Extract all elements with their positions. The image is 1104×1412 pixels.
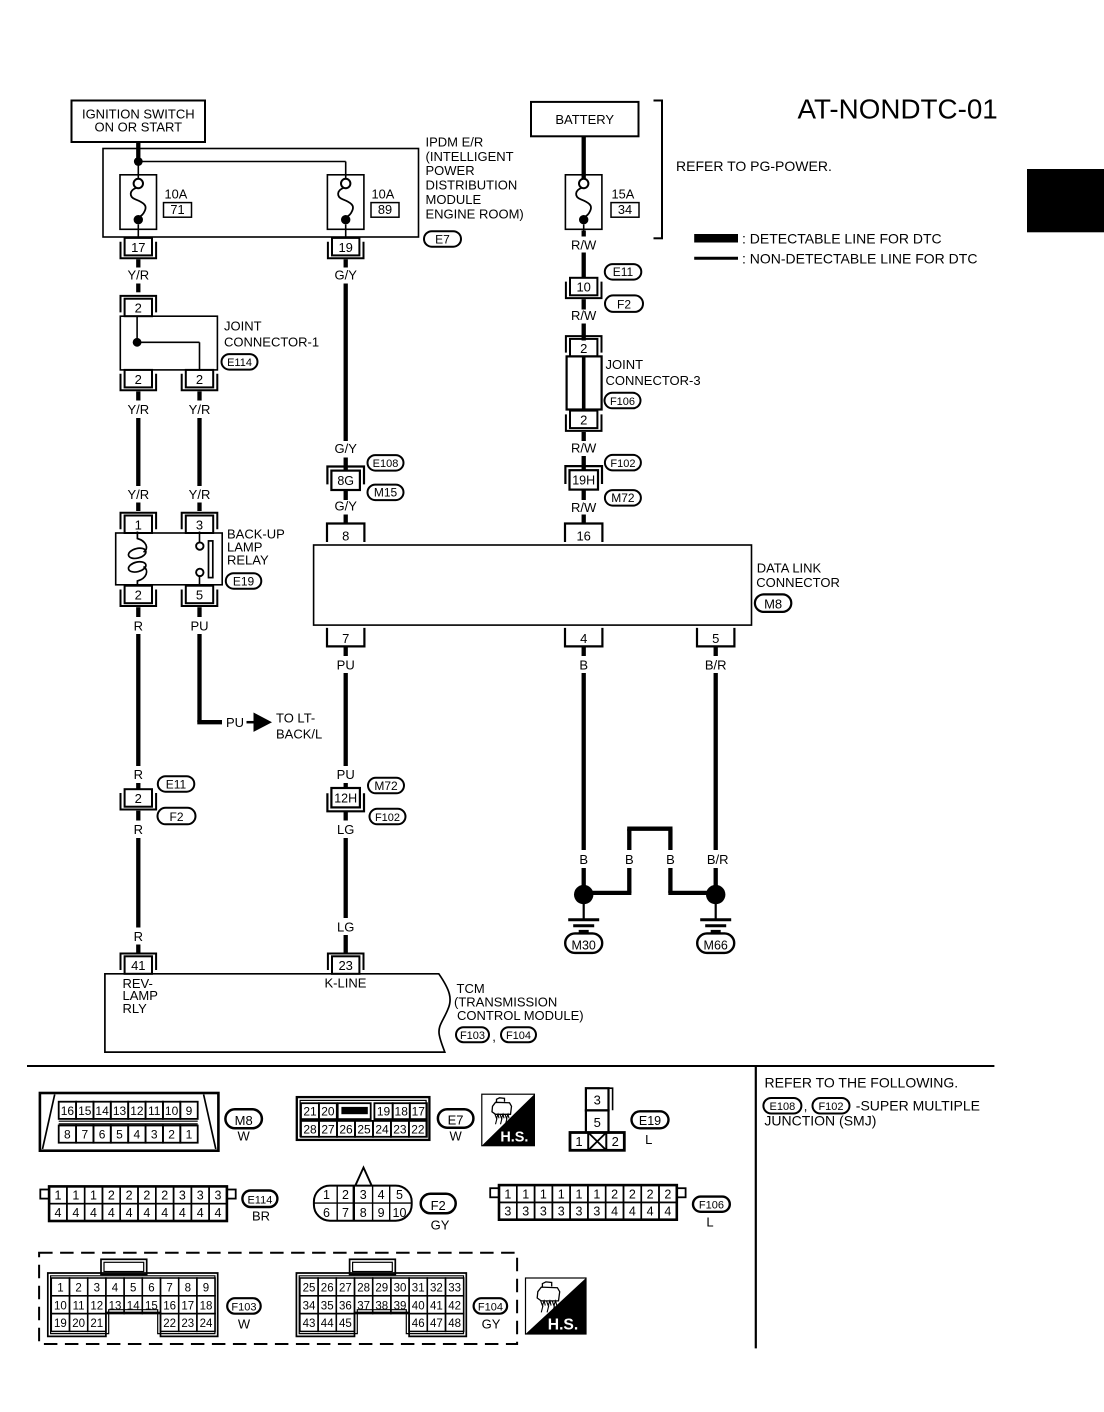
svg-text:10A: 10A: [165, 187, 188, 202]
svg-text:26: 26: [339, 1122, 353, 1136]
svg-text:G/Y: G/Y: [334, 268, 357, 283]
svg-text:JOINT: JOINT: [606, 357, 644, 372]
svg-text:CONTROL MODULE): CONTROL MODULE): [457, 1008, 584, 1023]
svg-text:F102: F102: [610, 458, 635, 470]
svg-text:8: 8: [64, 1128, 71, 1142]
svg-text:17: 17: [181, 1300, 194, 1312]
svg-text:18: 18: [395, 1105, 409, 1119]
svg-text:1: 1: [540, 1187, 547, 1201]
svg-text:1: 1: [90, 1189, 97, 1203]
svg-text:M72: M72: [374, 779, 398, 793]
svg-text:13: 13: [109, 1300, 122, 1312]
svg-text:6: 6: [99, 1128, 106, 1142]
svg-text:R/W: R/W: [571, 308, 597, 323]
svg-text:H.S.: H.S.: [500, 1130, 528, 1146]
svg-text:10: 10: [393, 1206, 407, 1220]
svg-text:K-LINE: K-LINE: [325, 975, 367, 990]
svg-text:F2: F2: [169, 810, 183, 824]
svg-text:24: 24: [200, 1318, 213, 1330]
svg-text:1: 1: [576, 1187, 583, 1201]
svg-text:F102: F102: [818, 1101, 843, 1113]
svg-text:BACK/L: BACK/L: [276, 727, 322, 742]
svg-text:4: 4: [664, 1205, 671, 1219]
svg-text:1: 1: [186, 1128, 193, 1142]
svg-text:2: 2: [664, 1187, 671, 1201]
svg-text:W: W: [238, 1129, 251, 1144]
svg-text:18: 18: [200, 1300, 213, 1312]
svg-text:4: 4: [647, 1205, 654, 1219]
svg-text:3: 3: [360, 1188, 367, 1202]
svg-text:B: B: [625, 852, 634, 867]
svg-text:POWER: POWER: [426, 163, 475, 178]
svg-text:BR: BR: [252, 1209, 270, 1224]
svg-text:M30: M30: [572, 939, 596, 953]
svg-text:3: 3: [576, 1205, 583, 1219]
svg-text:1: 1: [135, 517, 142, 532]
svg-text:B: B: [666, 852, 675, 867]
svg-text:: NON-DETECTABLE LINE FOR DTC: : NON-DETECTABLE LINE FOR DTC: [742, 250, 977, 266]
svg-text:W: W: [238, 1317, 251, 1332]
svg-text:R/W: R/W: [571, 238, 597, 253]
svg-text:2: 2: [75, 1283, 81, 1295]
svg-text:GY: GY: [431, 1218, 450, 1233]
svg-text:M8: M8: [764, 597, 782, 612]
svg-text:15A: 15A: [612, 187, 635, 202]
svg-text:4: 4: [179, 1206, 186, 1220]
svg-text:R: R: [134, 767, 143, 782]
svg-text:5: 5: [594, 1115, 601, 1130]
svg-text:B/R: B/R: [705, 658, 727, 673]
svg-text:1: 1: [504, 1187, 511, 1201]
svg-text:2: 2: [143, 1189, 150, 1203]
svg-text:16: 16: [576, 529, 590, 544]
svg-text:E11: E11: [166, 777, 187, 791]
svg-text:LG: LG: [337, 920, 354, 935]
svg-text:19: 19: [377, 1105, 391, 1119]
svg-text:3: 3: [94, 1283, 100, 1295]
svg-text:1: 1: [558, 1187, 565, 1201]
svg-text:DATA LINK: DATA LINK: [757, 561, 822, 576]
svg-text:M66: M66: [704, 939, 728, 953]
svg-text:DISTRIBUTION: DISTRIBUTION: [426, 178, 518, 193]
svg-text:L: L: [706, 1215, 713, 1230]
svg-text:45: 45: [339, 1318, 352, 1330]
svg-text:17: 17: [131, 240, 145, 255]
svg-text:2: 2: [135, 588, 142, 603]
svg-text:14: 14: [95, 1104, 109, 1118]
svg-text:4: 4: [143, 1206, 150, 1220]
svg-text:6: 6: [323, 1206, 330, 1220]
svg-text:4: 4: [378, 1188, 385, 1202]
svg-text:30: 30: [394, 1283, 407, 1295]
svg-text:12: 12: [130, 1104, 144, 1118]
svg-text:4: 4: [197, 1206, 204, 1220]
svg-text:5: 5: [130, 1283, 136, 1295]
svg-text:11: 11: [148, 1104, 161, 1118]
svg-text:17: 17: [412, 1105, 426, 1119]
svg-text:JUNCTION (SMJ): JUNCTION (SMJ): [764, 1113, 876, 1129]
svg-text:14: 14: [127, 1300, 140, 1312]
svg-text:10: 10: [576, 280, 590, 295]
svg-text:19H: 19H: [572, 474, 595, 488]
svg-text:27: 27: [339, 1283, 352, 1295]
svg-text:4: 4: [112, 1283, 119, 1295]
svg-text:71: 71: [170, 202, 184, 217]
svg-text:2: 2: [196, 372, 203, 387]
svg-text:3: 3: [522, 1205, 529, 1219]
svg-text:TO LT-: TO LT-: [276, 711, 315, 726]
svg-text:CONNECTOR-3: CONNECTOR-3: [606, 373, 701, 388]
svg-text:1: 1: [72, 1189, 79, 1203]
svg-text:4: 4: [126, 1206, 133, 1220]
svg-text:4: 4: [55, 1206, 62, 1220]
svg-text:21: 21: [303, 1105, 317, 1119]
svg-text:3: 3: [197, 1189, 204, 1203]
svg-text:10: 10: [165, 1104, 179, 1118]
svg-text:R/W: R/W: [571, 500, 597, 515]
svg-text:1: 1: [55, 1189, 62, 1203]
svg-text:H.S.: H.S.: [548, 1317, 578, 1334]
svg-text:,: ,: [804, 1099, 808, 1114]
svg-text:4: 4: [161, 1206, 168, 1220]
svg-text:20: 20: [321, 1105, 335, 1119]
svg-text:2: 2: [126, 1189, 133, 1203]
svg-text:ON OR START: ON OR START: [94, 120, 182, 135]
svg-text:CONNECTOR-1: CONNECTOR-1: [224, 335, 319, 350]
svg-text:E19: E19: [233, 574, 255, 588]
svg-text:2: 2: [580, 413, 587, 428]
svg-text:4: 4: [215, 1206, 222, 1220]
svg-text:Y/R: Y/R: [127, 402, 149, 417]
svg-text:3: 3: [594, 1093, 601, 1108]
svg-text:REFER TO PG-POWER.: REFER TO PG-POWER.: [676, 158, 832, 174]
svg-text:F2: F2: [617, 298, 631, 312]
svg-text:25: 25: [357, 1122, 371, 1136]
svg-text:3: 3: [196, 517, 203, 532]
svg-text:,: ,: [492, 1029, 496, 1044]
svg-text:2: 2: [108, 1189, 115, 1203]
svg-text:F2: F2: [431, 1198, 446, 1213]
svg-text:10: 10: [54, 1300, 67, 1312]
svg-text:8: 8: [342, 529, 349, 544]
svg-text:3: 3: [179, 1189, 186, 1203]
svg-text:41: 41: [131, 958, 145, 973]
svg-text:2: 2: [612, 1134, 619, 1149]
svg-text:E108: E108: [770, 1101, 796, 1113]
svg-text:28: 28: [357, 1283, 370, 1295]
svg-text:44: 44: [321, 1318, 334, 1330]
svg-text:12H: 12H: [334, 791, 357, 805]
svg-text:M8: M8: [235, 1113, 253, 1128]
svg-text:25: 25: [303, 1283, 316, 1295]
svg-text:4: 4: [134, 1128, 141, 1142]
svg-text:2: 2: [168, 1128, 175, 1142]
svg-text:2: 2: [135, 301, 142, 316]
svg-text:37: 37: [357, 1300, 370, 1312]
svg-text:R: R: [134, 619, 143, 634]
svg-text:E114: E114: [227, 357, 252, 369]
svg-text:B: B: [579, 852, 588, 867]
svg-text:19: 19: [54, 1318, 67, 1330]
svg-text:3: 3: [558, 1205, 565, 1219]
svg-text:B: B: [579, 658, 588, 673]
svg-text:R/W: R/W: [571, 441, 597, 456]
svg-text:M72: M72: [611, 491, 635, 505]
svg-text:PU: PU: [190, 619, 208, 634]
svg-text:F103: F103: [231, 1301, 256, 1313]
svg-text:CONNECTOR: CONNECTOR: [756, 575, 840, 590]
svg-text:BATTERY: BATTERY: [555, 112, 614, 127]
svg-text:2: 2: [342, 1188, 349, 1202]
svg-text:32: 32: [430, 1283, 443, 1295]
svg-text:16: 16: [163, 1300, 176, 1312]
svg-text:48: 48: [448, 1318, 461, 1330]
svg-text:1: 1: [593, 1187, 600, 1201]
svg-text:11: 11: [73, 1300, 85, 1312]
svg-text:2: 2: [161, 1189, 168, 1203]
svg-text:39: 39: [394, 1300, 407, 1312]
svg-text:GY: GY: [482, 1317, 501, 1332]
svg-text:PU: PU: [337, 658, 355, 673]
svg-text:-SUPER MULTIPLE: -SUPER MULTIPLE: [856, 1098, 980, 1114]
svg-text:89: 89: [378, 202, 392, 217]
svg-text:40: 40: [412, 1300, 425, 1312]
svg-text:PU: PU: [226, 715, 244, 730]
svg-text:35: 35: [321, 1300, 334, 1312]
svg-text:34: 34: [618, 202, 632, 217]
svg-text:23: 23: [338, 958, 352, 973]
svg-text:20: 20: [72, 1318, 85, 1330]
svg-text:2: 2: [611, 1187, 618, 1201]
svg-text:26: 26: [321, 1283, 334, 1295]
svg-text:3: 3: [540, 1205, 547, 1219]
svg-text:F104: F104: [506, 1030, 531, 1042]
svg-text:G/Y: G/Y: [334, 441, 357, 456]
svg-text:2: 2: [580, 341, 587, 356]
svg-text:M15: M15: [374, 486, 398, 500]
svg-text:1: 1: [522, 1187, 529, 1201]
svg-text:4: 4: [611, 1205, 618, 1219]
svg-text:F106: F106: [699, 1199, 724, 1211]
svg-text:15: 15: [145, 1300, 158, 1312]
svg-text:8G: 8G: [337, 474, 354, 488]
svg-text:E11: E11: [613, 265, 634, 279]
svg-text:7: 7: [166, 1283, 172, 1295]
svg-text:19: 19: [338, 240, 352, 255]
svg-text:IPDM E/R: IPDM E/R: [426, 134, 484, 149]
svg-text:Y/R: Y/R: [189, 402, 211, 417]
svg-text:7: 7: [81, 1128, 88, 1142]
svg-text:2: 2: [135, 791, 142, 806]
svg-text:38: 38: [375, 1300, 388, 1312]
svg-text:24: 24: [375, 1122, 389, 1136]
svg-text:10A: 10A: [372, 187, 395, 202]
svg-text:43: 43: [303, 1318, 316, 1330]
svg-text:E7: E7: [435, 232, 450, 246]
svg-text:34: 34: [303, 1300, 316, 1312]
svg-text:3: 3: [504, 1205, 511, 1219]
svg-text:33: 33: [448, 1283, 461, 1295]
svg-text:2: 2: [647, 1187, 654, 1201]
svg-text:AT-NONDTC-01: AT-NONDTC-01: [798, 94, 998, 125]
svg-text:Y/R: Y/R: [127, 268, 149, 283]
svg-text:42: 42: [448, 1300, 461, 1312]
svg-text:12: 12: [90, 1300, 103, 1312]
svg-text:F102: F102: [375, 812, 400, 824]
svg-text:3: 3: [593, 1205, 600, 1219]
svg-text:7: 7: [342, 631, 349, 646]
svg-text:5: 5: [396, 1188, 403, 1202]
svg-text:E108: E108: [373, 458, 399, 470]
svg-text:46: 46: [412, 1318, 425, 1330]
svg-text:5: 5: [712, 631, 719, 646]
svg-text:9: 9: [378, 1206, 385, 1220]
svg-text:L: L: [645, 1132, 652, 1147]
svg-text:31: 31: [412, 1283, 425, 1295]
svg-text:Y/R: Y/R: [127, 487, 149, 502]
svg-text:22: 22: [163, 1318, 176, 1330]
svg-text:27: 27: [321, 1122, 335, 1136]
svg-text:REFER TO THE FOLLOWING.: REFER TO THE FOLLOWING.: [765, 1075, 959, 1091]
svg-text:R: R: [134, 929, 143, 944]
svg-text:9: 9: [203, 1283, 209, 1295]
svg-text:W: W: [449, 1129, 462, 1144]
svg-text:47: 47: [430, 1318, 443, 1330]
svg-text:7: 7: [342, 1206, 349, 1220]
svg-text:29: 29: [375, 1283, 388, 1295]
svg-text:Y/R: Y/R: [189, 487, 211, 502]
svg-text:RELAY: RELAY: [227, 553, 269, 568]
svg-text:3: 3: [215, 1189, 222, 1203]
svg-text:JOINT: JOINT: [224, 319, 262, 334]
svg-text:9: 9: [186, 1104, 193, 1118]
svg-text:G/Y: G/Y: [334, 498, 357, 513]
svg-text:16: 16: [61, 1104, 75, 1118]
svg-text:PU: PU: [337, 767, 355, 782]
svg-text:28: 28: [303, 1122, 317, 1136]
svg-text:1: 1: [57, 1283, 63, 1295]
svg-text:1: 1: [575, 1134, 582, 1149]
svg-text:22: 22: [411, 1122, 425, 1136]
svg-text:F106: F106: [610, 396, 635, 408]
svg-text:4: 4: [72, 1206, 79, 1220]
svg-text:E114: E114: [247, 1195, 272, 1207]
svg-text:E19: E19: [639, 1114, 661, 1128]
svg-text:4: 4: [580, 631, 587, 646]
svg-text:36: 36: [339, 1300, 352, 1312]
svg-text:B/R: B/R: [707, 852, 729, 867]
svg-text:F104: F104: [478, 1301, 503, 1313]
svg-text:RLY: RLY: [123, 1001, 148, 1016]
svg-text:ENGINE ROOM): ENGINE ROOM): [426, 207, 524, 222]
svg-text:5: 5: [196, 588, 203, 603]
svg-text:2: 2: [629, 1187, 636, 1201]
svg-text:23: 23: [393, 1122, 407, 1136]
svg-text:E7: E7: [448, 1112, 464, 1127]
svg-text:MODULE: MODULE: [426, 192, 482, 207]
svg-text:23: 23: [181, 1318, 194, 1330]
svg-text:15: 15: [78, 1104, 92, 1118]
svg-text:4: 4: [90, 1206, 97, 1220]
svg-text:13: 13: [113, 1104, 127, 1118]
svg-text:1: 1: [323, 1188, 330, 1202]
svg-text:(INTELLIGENT: (INTELLIGENT: [426, 149, 514, 164]
svg-text:8: 8: [185, 1283, 191, 1295]
svg-text:41: 41: [430, 1300, 443, 1312]
svg-text:5: 5: [116, 1128, 123, 1142]
svg-text:LG: LG: [337, 822, 354, 837]
svg-text:21: 21: [90, 1318, 103, 1330]
svg-text:: DETECTABLE LINE FOR DTC: : DETECTABLE LINE FOR DTC: [742, 230, 942, 246]
svg-text:2: 2: [135, 372, 142, 387]
svg-text:4: 4: [629, 1205, 636, 1219]
svg-text:4: 4: [108, 1206, 115, 1220]
svg-text:6: 6: [148, 1283, 154, 1295]
svg-text:F103: F103: [460, 1030, 485, 1042]
svg-text:R: R: [134, 822, 143, 837]
svg-text:3: 3: [151, 1128, 158, 1142]
svg-text:8: 8: [360, 1206, 367, 1220]
